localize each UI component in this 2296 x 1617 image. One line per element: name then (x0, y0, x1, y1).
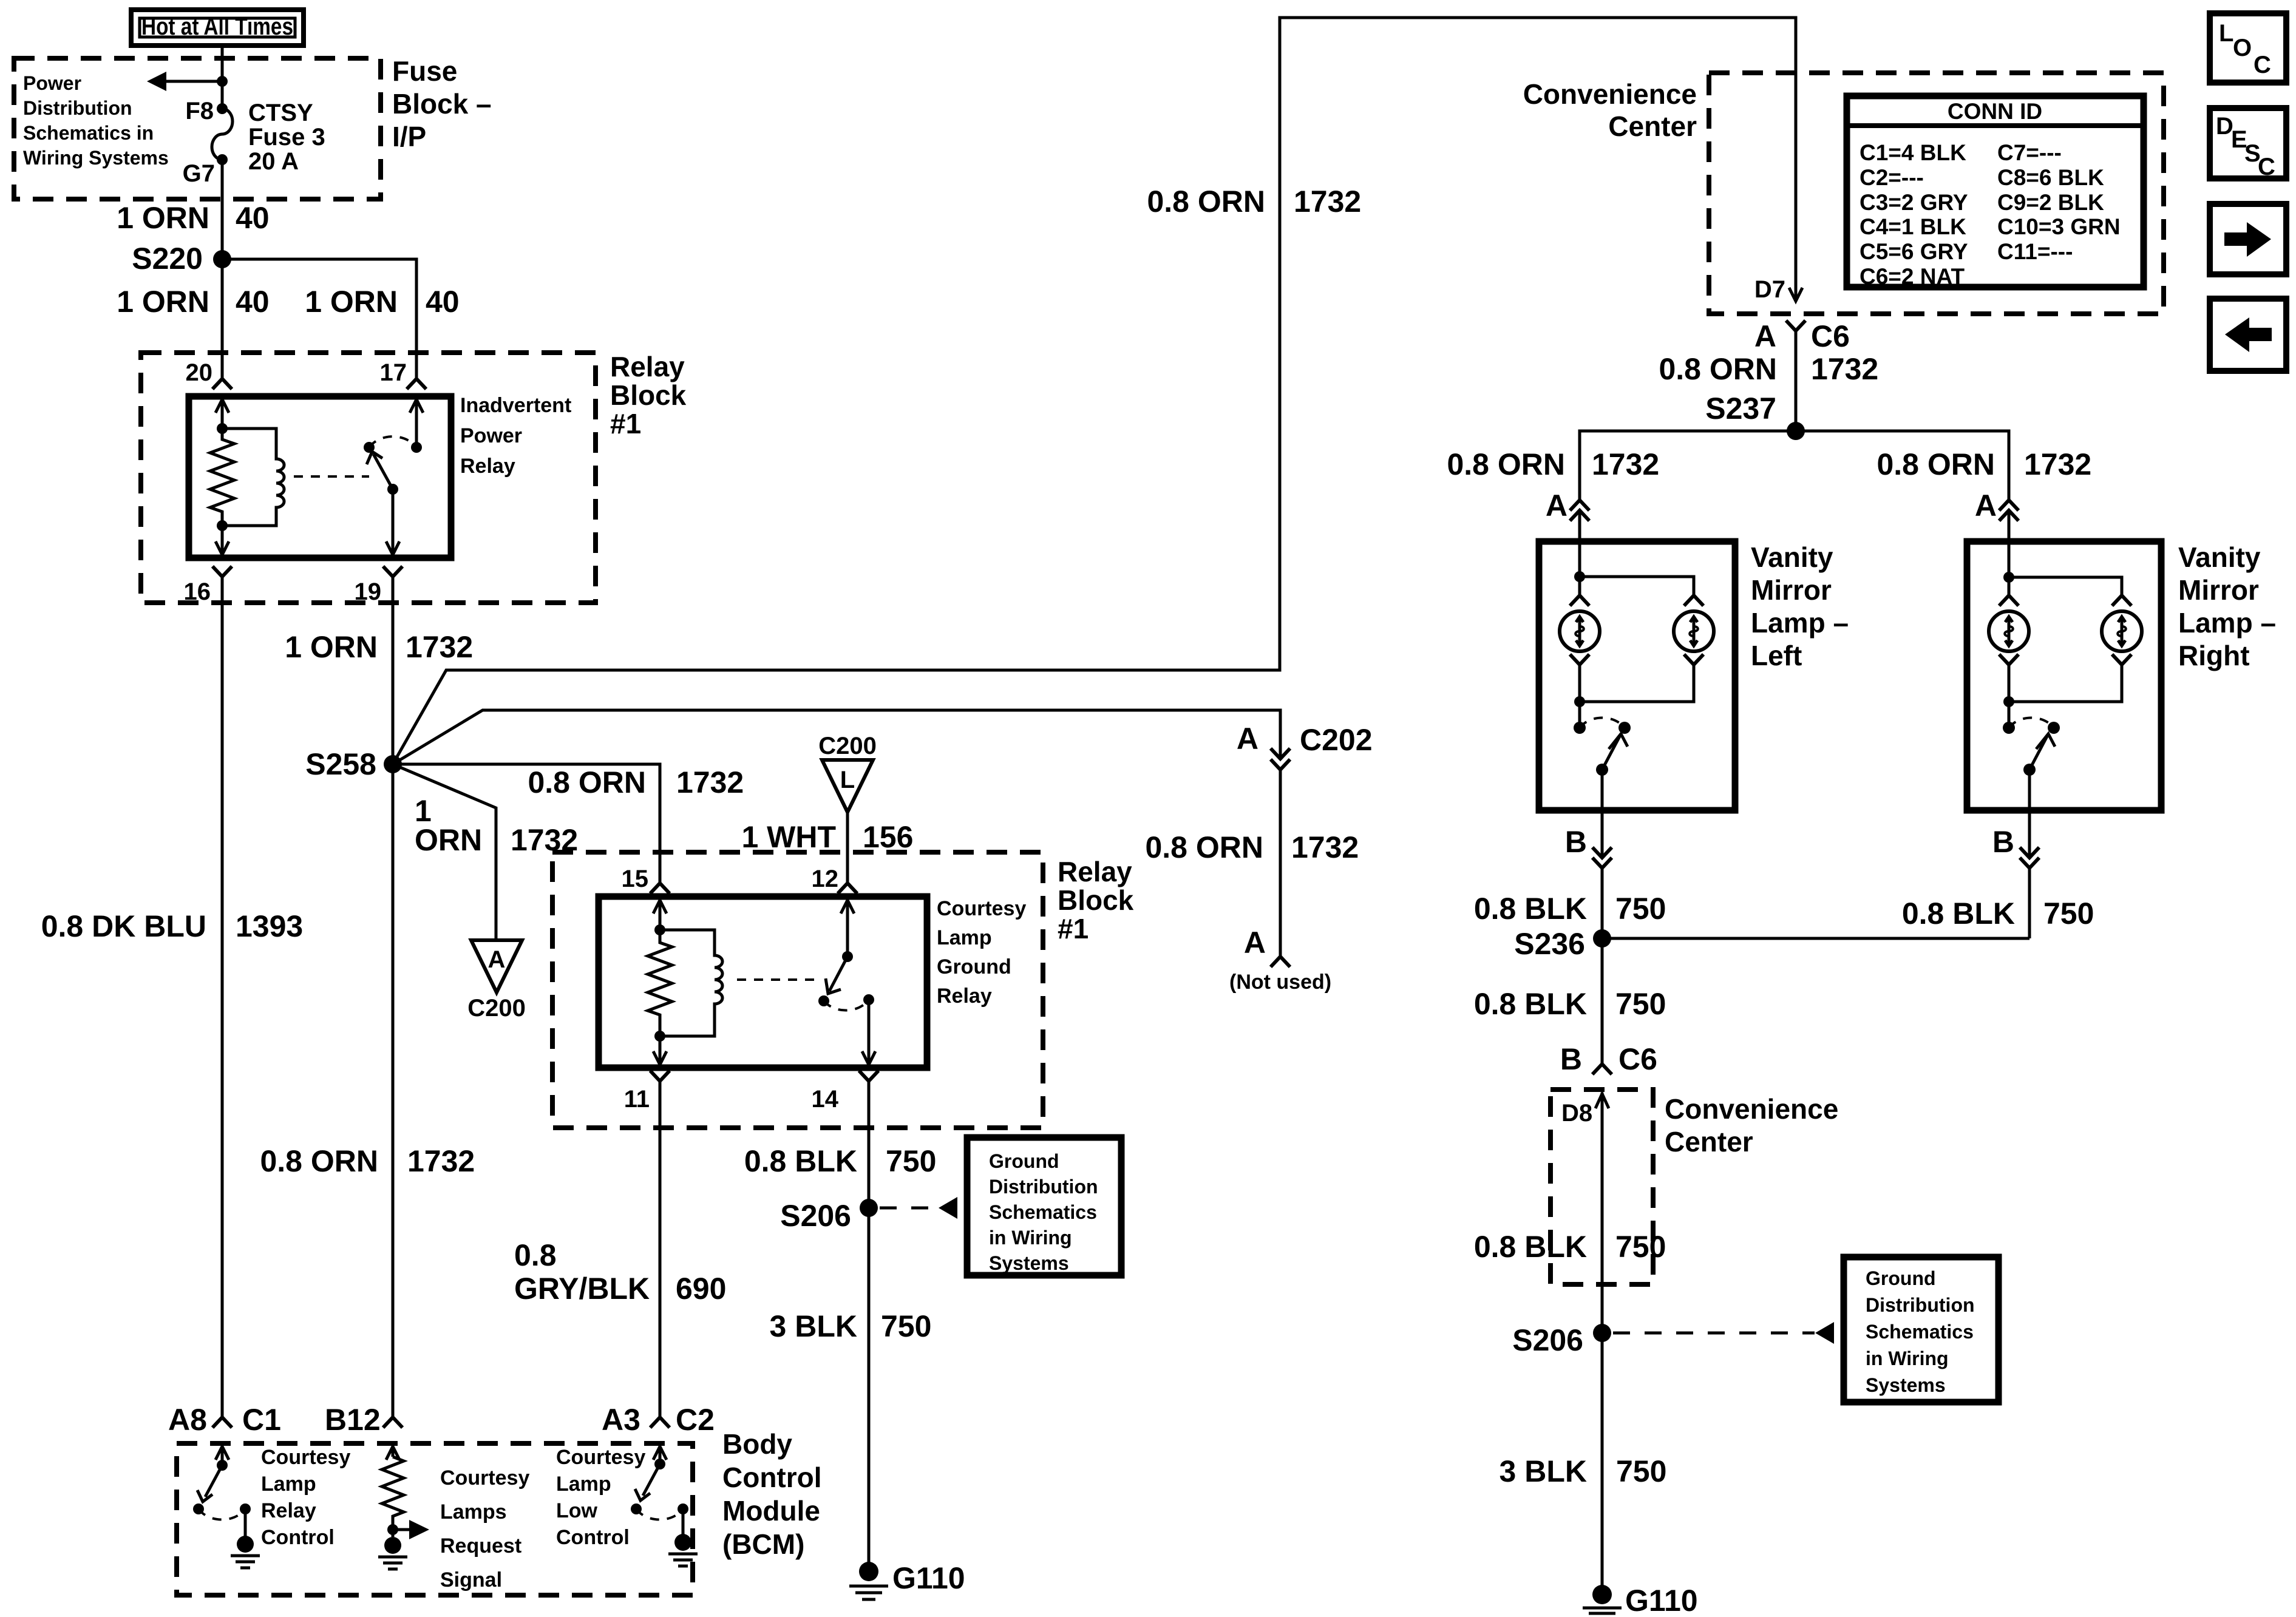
label Fuse Block - I/P (392, 55, 492, 152)
svg-text:Relay: Relay (460, 455, 515, 478)
wire label 0.8 ORN 1732 (right branch) (1877, 447, 2091, 481)
pin 12 entry wire with arrow (841, 900, 854, 962)
svg-text:Schematics in: Schematics in (23, 122, 154, 144)
node S206 (right) (1512, 1323, 1611, 1357)
svg-text:C9=2 BLK: C9=2 BLK (1997, 190, 2104, 215)
bulb 1 (left) (1560, 595, 1600, 665)
relay block #1 dashed outline (141, 353, 596, 603)
label box "Hot at All Times" (131, 10, 304, 46)
svg-text:0.8 BLK: 0.8 BLK (1474, 1230, 1587, 1264)
connector C200 terminal A (triangle) (467, 940, 526, 1022)
label Courtesy Lamps Request Signal (440, 1466, 529, 1592)
connector B (left vanity, double chevron) (1565, 825, 1612, 868)
wire label 0.8 BLK 750 (left) (1474, 892, 1666, 926)
svg-text:C8=6 BLK: C8=6 BLK (1997, 165, 2104, 190)
svg-text:12: 12 (812, 866, 839, 892)
wire C6-A down to S237 (1795, 331, 1798, 431)
connector C6 pin A below convenience center (1754, 319, 1850, 353)
svg-text:CTSY: CTSY (248, 100, 313, 126)
label Relay Block #1 (610, 351, 687, 439)
svg-text:Courtesy: Courtesy (261, 1446, 350, 1469)
svg-text:C202: C202 (1300, 723, 1373, 757)
svg-text:in Wiring: in Wiring (1866, 1347, 1949, 1369)
note box Ground Distribution Schematics in Wiring Systems (right) (1844, 1257, 1999, 1402)
svg-text:Control: Control (722, 1462, 822, 1493)
switch dashed arc (369, 436, 416, 447)
node S220 (132, 242, 231, 276)
relay U1 box (Inadvertent Power Relay) (189, 396, 451, 558)
button DESC (2210, 108, 2286, 180)
button LOC (2210, 13, 2286, 83)
wire arrow to power distribution (left) (147, 72, 222, 91)
svg-text:C200: C200 (467, 995, 526, 1022)
A8 entry wire with arrow (216, 1446, 229, 1471)
label Courtesy Lamp Relay Control (261, 1446, 350, 1549)
svg-text:CONN ID: CONN ID (1948, 99, 2042, 124)
svg-text:3 BLK: 3 BLK (770, 1309, 857, 1343)
svg-text:1732: 1732 (407, 1144, 475, 1178)
svg-text:(BCM): (BCM) (722, 1528, 804, 1560)
svg-text:D7: D7 (1754, 276, 1785, 303)
wire label 0.8 BLK 750 (1474, 987, 1666, 1021)
svg-text:A8: A8 (168, 1403, 207, 1437)
convenience center dashed outline (1709, 73, 2164, 314)
wire S236 to right vanity B (1602, 937, 2029, 940)
wire label 0.8 BLK 750 (744, 1144, 937, 1178)
svg-text:Lamp: Lamp (937, 926, 992, 949)
label Relay Block #1 (1058, 856, 1134, 944)
svg-text:G110: G110 (1625, 1584, 1698, 1617)
pin 16 exit wire with arrow (216, 526, 229, 555)
svg-text:S206: S206 (780, 1199, 851, 1233)
relay coil winding (222, 429, 284, 526)
svg-text:Vanity: Vanity (2178, 541, 2261, 573)
svg-text:C11=---: C11=--- (1997, 239, 2073, 264)
svg-text:C4=1 BLK: C4=1 BLK (1860, 214, 1966, 239)
svg-text:1732: 1732 (406, 630, 473, 664)
svg-text:#1: #1 (610, 408, 641, 439)
wire label 0.8 ORN 1732 (top right) (1147, 185, 1361, 219)
svg-text:S237: S237 (1705, 392, 1776, 425)
svg-text:#1: #1 (1058, 913, 1089, 944)
svg-text:0.8: 0.8 (514, 1238, 557, 1272)
dashed reference arrow S206 to ground distribution note (880, 1197, 957, 1219)
CONN ID table box (1847, 96, 2144, 289)
node bulb return junction (2003, 696, 2014, 707)
wire label 0.8 ORN 1732 (lower left wire) (260, 1144, 475, 1178)
svg-text:Block: Block (610, 379, 687, 411)
pin 11 exit wire with arrow (653, 1036, 667, 1065)
svg-text:20 A: 20 A (248, 148, 299, 175)
svg-text:750: 750 (1615, 1230, 1666, 1264)
relay coil resistor (210, 429, 234, 526)
svg-text:S236: S236 (1514, 927, 1585, 961)
label Inadvertent Power Relay (460, 394, 571, 478)
wire label 0.8 GRY/BLK 690 (514, 1238, 726, 1306)
svg-text:C1=4 BLK: C1=4 BLK (1860, 140, 1966, 165)
relay U2 box (Courtesy Lamp Ground Relay) (599, 897, 927, 1068)
button next (right arrow) (2210, 204, 2286, 274)
dashed reference arrow S206 to ground distribution note (1613, 1322, 1834, 1344)
lamp switch (2003, 717, 2060, 776)
wire label 1 ORN 1732 (285, 630, 473, 664)
svg-text:Schematics: Schematics (989, 1201, 1097, 1223)
svg-text:1732: 1732 (2024, 447, 2091, 481)
svg-text:1732: 1732 (1811, 352, 1878, 386)
svg-text:0.8 ORN: 0.8 ORN (260, 1144, 378, 1178)
node junction above F8 (217, 76, 228, 87)
svg-text:Mirror: Mirror (2178, 574, 2259, 606)
svg-text:Convenience: Convenience (1665, 1093, 1838, 1125)
wire to second bulb (2009, 577, 2122, 595)
wire S258 to convenience center D7 (top route) (393, 18, 1796, 764)
node lamp feed junction (1574, 571, 1585, 582)
svg-text:1732: 1732 (1294, 185, 1361, 219)
svg-text:0.8 ORN: 0.8 ORN (1145, 830, 1263, 864)
svg-text:Vanity: Vanity (1751, 541, 1833, 573)
label Vanity Mirror Lamp - Left (1751, 541, 1849, 671)
wire C200-L down to relay pin 12 (846, 812, 849, 882)
wire S220 right branch to relay pin 17 (222, 259, 416, 378)
pin 15 (622, 866, 670, 893)
svg-text:B: B (1992, 825, 2014, 859)
wire label 3 BLK 750 (770, 1309, 932, 1343)
svg-text:Schematics: Schematics (1866, 1321, 1974, 1343)
svg-text:Body: Body (722, 1428, 792, 1460)
svg-text:Request: Request (440, 1534, 521, 1558)
svg-text:Block –: Block – (392, 88, 492, 120)
svg-text:40: 40 (236, 201, 270, 235)
svg-text:Distribution: Distribution (23, 97, 132, 119)
ground G110 (right) (1583, 1584, 1698, 1617)
svg-text:750: 750 (881, 1309, 931, 1343)
svg-text:Lamp –: Lamp – (2178, 607, 2276, 639)
wire label 3 BLK 750 (1500, 1454, 1667, 1488)
svg-text:20: 20 (186, 359, 213, 386)
wire pin16 down to BCM A8 (221, 577, 224, 1417)
svg-text:Relay: Relay (261, 1499, 316, 1522)
ground G110 (left) (849, 1561, 965, 1599)
pin 11 (624, 1071, 670, 1113)
label Convenience Center (1665, 1093, 1838, 1158)
wire label 1 ORN 40 (right branch) (305, 285, 459, 319)
note box Ground Distribution Schematics in Wiring Systems (left) (967, 1137, 1121, 1275)
label Courtesy Lamp Ground Relay (937, 897, 1026, 1008)
node coil bottom (654, 1031, 665, 1042)
pin 17 entry wire with arrow (410, 399, 423, 453)
wire label 0.8 ORN 1732 (528, 765, 744, 799)
svg-text:Courtesy: Courtesy (937, 897, 1026, 920)
label Body Control Module (BCM) (722, 1428, 822, 1560)
value label CTSY Fuse 3 20 A (248, 100, 325, 175)
wire S237 branch right to vanity lamp right (1796, 431, 2009, 500)
svg-text:Convenience: Convenience (1523, 78, 1697, 110)
svg-text:0.8 BLK: 0.8 BLK (744, 1144, 857, 1178)
svg-text:Inadvertent: Inadvertent (460, 394, 571, 417)
svg-text:1393: 1393 (236, 909, 303, 943)
wire S258 to connector C200-A (393, 764, 496, 940)
relay actuation dashed link (294, 475, 369, 478)
svg-text:Courtesy: Courtesy (556, 1446, 645, 1469)
relay coil winding (660, 930, 722, 1036)
svg-text:A: A (1546, 489, 1567, 523)
svg-text:156: 156 (863, 820, 913, 854)
svg-text:0.8 ORN: 0.8 ORN (528, 765, 646, 799)
relay actuation dashed link (737, 978, 818, 981)
button previous (left arrow) (2210, 299, 2286, 371)
ground ball (courtesy lamps request) (384, 1537, 401, 1554)
courtesy lamp low control switch (631, 1464, 691, 1551)
wire label 0.8 DK BLU 1393 (41, 909, 304, 943)
svg-text:Relay: Relay (610, 351, 685, 382)
svg-text:750: 750 (1615, 892, 1666, 926)
node S258 (305, 747, 402, 781)
vanity mirror lamp left box (1539, 541, 1735, 810)
svg-text:Power: Power (23, 72, 81, 94)
node request signal tap (387, 1524, 398, 1535)
svg-text:C2=---: C2=--- (1860, 165, 1924, 190)
node S206 (780, 1199, 878, 1233)
node S237 (1705, 392, 1805, 440)
svg-text:750: 750 (1615, 987, 1666, 1021)
switch open contact (818, 995, 829, 1006)
svg-text:Lamp: Lamp (261, 1473, 316, 1496)
svg-text:750: 750 (1616, 1454, 1666, 1488)
ground (courtesy lamp low control) (668, 1554, 698, 1566)
connector C6 pin B (1560, 1042, 1657, 1076)
svg-text:Wiring Systems: Wiring Systems (23, 147, 169, 169)
connector A (right vanity, double chevron) (1975, 489, 2019, 523)
svg-text:19: 19 (355, 578, 382, 605)
D8 entry wire with arrow (1595, 1093, 1609, 1333)
svg-text:Left: Left (1751, 640, 1802, 671)
svg-text:B: B (1560, 1042, 1582, 1076)
node bulb return junction (1574, 696, 1585, 707)
pin 20 (186, 359, 233, 389)
svg-text:Distribution: Distribution (989, 1176, 1098, 1198)
svg-text:I/P: I/P (392, 121, 426, 152)
svg-text:C5=6 GRY: C5=6 GRY (1860, 239, 1968, 264)
svg-text:C6: C6 (1811, 319, 1850, 353)
node lamp feed junction (2003, 572, 2014, 583)
relay coil resistor (648, 930, 672, 1036)
fuse F8 CTSY Fuse 3 20 A (S-curve element) (212, 109, 233, 160)
svg-text:0.8 BLK: 0.8 BLK (1474, 987, 1587, 1021)
node F8 (185, 98, 228, 124)
svg-text:0.8 BLK: 0.8 BLK (1902, 897, 2015, 931)
svg-text:B: B (1565, 825, 1587, 859)
BCM dashed outline (177, 1443, 693, 1595)
svg-text:14: 14 (812, 1086, 839, 1113)
svg-text:Control: Control (261, 1526, 335, 1549)
svg-text:F8: F8 (185, 98, 214, 124)
wire pin19 down through S258 to BCM B12 (392, 577, 395, 1417)
relay block #1 dashed outline (552, 852, 1043, 1128)
pin 19 exit wire with arrow (386, 489, 399, 555)
svg-text:L: L (2219, 20, 2233, 47)
svg-text:Distribution: Distribution (1866, 1294, 1975, 1316)
wire S206 down to G110 (1601, 1333, 1604, 1595)
svg-text:C7=---: C7=--- (1997, 140, 2062, 165)
wire label 0.8 ORN 1732 (left branch) (1447, 447, 1659, 481)
pin 15 entry wire with arrow (653, 900, 667, 935)
pin 16 (184, 566, 233, 605)
svg-text:Ground: Ground (937, 955, 1011, 978)
wire label 0.8 BLK 750 (right) (1902, 897, 2094, 931)
bulb 1 (left) (1989, 595, 2029, 665)
svg-text:A: A (488, 946, 506, 973)
svg-text:Relay: Relay (1058, 856, 1132, 887)
svg-text:C: C (2254, 52, 2271, 78)
wire from Hot at All Times down to fuse F8 (221, 46, 224, 109)
svg-text:L: L (840, 767, 855, 793)
svg-text:40: 40 (426, 285, 460, 319)
switch arm with arrow (826, 957, 847, 994)
svg-text:Relay: Relay (937, 985, 992, 1008)
bulb 2 (right) (1674, 595, 1714, 665)
convenience center D8 dashed outline (1550, 1090, 1653, 1284)
svg-text:S258: S258 (305, 747, 376, 781)
lamp switch (1574, 717, 1631, 776)
wire S258 to connector C202 (393, 710, 1280, 764)
connector A (left vanity, double chevron) (1546, 489, 1589, 523)
wire arrowhead at D7 (1789, 288, 1802, 301)
request signal arrow (393, 1520, 429, 1539)
wire to second bulb (1580, 577, 1694, 595)
svg-text:0.8 ORN: 0.8 ORN (1659, 352, 1777, 386)
wire label 1 ORN 40 (117, 201, 269, 235)
wire S236 down to connector C6-B (1601, 938, 1604, 1064)
svg-text:Mirror: Mirror (1751, 574, 1832, 606)
connector B (right vanity, double chevron) (1992, 825, 2039, 868)
switch arm with arrow (367, 452, 398, 495)
wire label 1 WHT 156 (741, 820, 913, 854)
wire S220 down to relay pin 20 (221, 259, 224, 378)
svg-text:1 WHT: 1 WHT (741, 820, 836, 854)
pin 19 (355, 566, 403, 605)
svg-text:0.8 ORN: 0.8 ORN (1877, 447, 1995, 481)
svg-text:D8: D8 (1561, 1100, 1592, 1127)
connector C200 terminal L (triangle) (818, 733, 877, 812)
pin 14 (812, 1071, 879, 1113)
svg-text:S220: S220 (132, 242, 203, 276)
wire label 0.8 ORN 1732 (1659, 352, 1878, 386)
vanity mirror lamp right box (1967, 541, 2161, 810)
wire C202 down to not-used end (1279, 770, 1282, 957)
label Courtesy Lamp Low Control (556, 1446, 645, 1549)
svg-text:Lamps: Lamps (440, 1500, 507, 1524)
svg-text:Signal: Signal (440, 1568, 502, 1592)
svg-text:Systems: Systems (1866, 1374, 1946, 1396)
wire B down to S236 junction (2028, 868, 2031, 938)
svg-text:Right: Right (2178, 640, 2250, 671)
svg-text:GRY/BLK: GRY/BLK (514, 1272, 650, 1306)
svg-text:750: 750 (886, 1144, 936, 1178)
wire switch to pin B (2028, 770, 2031, 856)
svg-text:3 BLK: 3 BLK (1500, 1454, 1587, 1488)
pin 17 (380, 359, 427, 389)
wire B down to S236 (1601, 868, 1604, 938)
svg-text:C: C (2258, 154, 2275, 180)
svg-text:Ground: Ground (989, 1150, 1059, 1172)
node S236 (1514, 927, 1611, 961)
svg-text:0.8 ORN: 0.8 ORN (1147, 185, 1265, 219)
svg-text:O: O (2233, 35, 2252, 61)
svg-text:C1: C1 (242, 1403, 281, 1437)
pin 20 entry wire with arrow (216, 399, 229, 434)
pin A3 connector C2 (602, 1403, 715, 1437)
svg-text:Hot at All Times: Hot at All Times (141, 13, 293, 40)
svg-text:C2: C2 (676, 1403, 715, 1437)
svg-text:17: 17 (380, 359, 407, 386)
node coil bottom (217, 520, 228, 531)
svg-text:G110: G110 (892, 1561, 965, 1595)
svg-text:C6: C6 (1618, 1042, 1657, 1076)
label Convenience Center (1523, 78, 1697, 142)
wire bulb returns join (2009, 665, 2122, 728)
A3 entry wire with arrow (653, 1446, 667, 1470)
terminal A (Not used) (1229, 926, 1331, 994)
wire label 1 ORN 1732 (415, 794, 578, 857)
ground (courtesy lamps request) (378, 1557, 407, 1569)
wire label 0.8 ORN 1732 (1145, 830, 1359, 864)
svg-text:Power: Power (460, 424, 522, 447)
svg-text:C3=2 GRY: C3=2 GRY (1860, 190, 1968, 215)
node G7 (183, 154, 228, 187)
svg-text:Lamp –: Lamp – (1751, 607, 1849, 639)
wire pin 14 down to G110 (868, 1081, 871, 1571)
svg-text:Fuse 3: Fuse 3 (248, 124, 325, 151)
svg-text:Lamp: Lamp (556, 1473, 611, 1496)
pin A8 connector C1 (168, 1403, 281, 1437)
svg-text:A: A (1975, 489, 1997, 523)
svg-text:Systems: Systems (989, 1252, 1069, 1274)
switch fixed contact to pin 14 (862, 994, 875, 1065)
svg-text:S206: S206 (1512, 1323, 1583, 1357)
svg-text:A3: A3 (602, 1403, 640, 1437)
label Vanity Mirror Lamp - Right (2178, 541, 2276, 671)
svg-text:1 ORN: 1 ORN (305, 285, 398, 319)
svg-text:C6=2 NAT: C6=2 NAT (1860, 264, 1965, 289)
courtesy lamp relay control switch (193, 1465, 254, 1553)
wire bulb returns join (1580, 665, 1694, 728)
svg-text:11: 11 (624, 1086, 650, 1113)
svg-text:1732: 1732 (1592, 447, 1659, 481)
wire S237 branch left to vanity lamp left (1580, 431, 1796, 500)
svg-text:Control: Control (556, 1526, 630, 1549)
svg-text:A: A (1754, 319, 1776, 353)
svg-text:B12: B12 (325, 1403, 381, 1437)
wire label 1 ORN 40 (left branch) (117, 285, 269, 319)
svg-text:1732: 1732 (1291, 830, 1359, 864)
svg-text:A: A (1244, 926, 1266, 960)
pin 12 (812, 866, 858, 893)
svg-text:15: 15 (622, 866, 649, 892)
svg-text:Ground: Ground (1866, 1267, 1936, 1289)
svg-text:Center: Center (1608, 110, 1697, 142)
wire S258 to courtesy relay pin 15 (393, 764, 660, 882)
svg-text:1732: 1732 (676, 765, 744, 799)
svg-text:Module: Module (722, 1495, 820, 1527)
svg-text:(Not used): (Not used) (1229, 971, 1331, 994)
svg-text:16: 16 (184, 578, 211, 605)
svg-text:Low: Low (556, 1499, 598, 1522)
svg-text:C200: C200 (818, 733, 877, 759)
courtesy lamps request resistor (382, 1457, 404, 1537)
pin B12 (325, 1403, 402, 1437)
B12 entry wire with arrow (386, 1446, 399, 1460)
svg-text:Block: Block (1058, 884, 1134, 916)
